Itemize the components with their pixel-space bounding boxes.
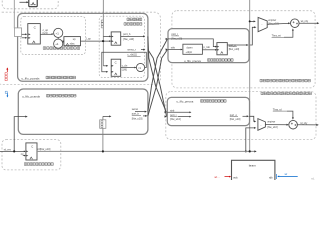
blue annotation right of bram (278, 175, 298, 177)
wire O2 to up/rdec block U1 (63, 42, 64, 43)
wire port_b out of B1 to subsystem edge (121, 35, 145, 37)
counter block C2 (111, 59, 121, 76)
rotated goto tag + riser x=102.9 (102, 116, 104, 151)
svg-text:wrptrwr: wrptrwr (267, 120, 275, 123)
link O1-O2 (57, 38, 59, 40)
register block B1 (111, 32, 121, 45)
gray feed wire at x=14.3 from top (13, 0, 15, 28)
svg-text:[Nw_u10]: [Nw_u10] (229, 48, 240, 51)
svg-text:c_dn: c_dn (122, 65, 128, 68)
svg-text:[Nw_u10]: [Nw_u10] (268, 23, 278, 26)
svg-text:+rdptr: +rdptr (186, 51, 193, 54)
mux trapezoid T1 (258, 17, 267, 31)
svg-text:[Nw_u10]: [Nw_u10] (132, 117, 143, 120)
wire into top-left block (20, 1, 29, 3)
svg-text:[Nw_u10]: [Nw_u10] (267, 126, 277, 129)
svg-text:u_fifo_precva: u_fifo_precva (184, 59, 201, 63)
annotation box D5 (rd address counter) (2, 140, 61, 170)
svg-text:port_b: port_b (123, 33, 131, 36)
crossing bundle A wire 1 (port_b upper to lower-right) (148, 36, 166, 112)
top-left icon block (29, 0, 37, 7)
svg-text:[Nw_u10]: [Nw_u10] (230, 118, 241, 121)
svg-text:rd..: rd.. (311, 178, 315, 180)
long vertical wire x=249.7 (rd address to wr-side mux) (249, 0, 251, 151)
subsystem u_fifo_pcands (upper) (18, 13, 148, 81)
svg-text:strb: strb (171, 46, 176, 49)
svg-text:[1/8]: [1/8] (122, 69, 127, 72)
svg-text:p_rdo: p_rdo (203, 46, 210, 49)
subsystem u_fifo_pcands (lower) (18, 89, 148, 134)
label: wr-side address diff annotation (260, 79, 310, 82)
label: rd-side address diff annotation (261, 92, 311, 95)
crossing bundle B wire 1 (lower port to precva upper port_i) (148, 39, 168, 112)
label of area A (43, 47, 79, 50)
svg-text:rd[Nw_u10]: rd[Nw_u10] (38, 148, 51, 151)
svg-text:serno: serno (132, 108, 139, 111)
mux trapezoid T2 (258, 119, 266, 131)
bram block (232, 160, 275, 182)
svg-text:C: C (115, 61, 117, 65)
red annotation left margin (6, 68, 8, 72)
svg-text:serno_r: serno_r (127, 48, 136, 51)
svg-text:rd_rdy: rd_rdy (300, 122, 308, 125)
svg-text:rdec: rdec (70, 43, 76, 46)
svg-text:[Nw_u10]: [Nw_u10] (170, 118, 181, 121)
svg-text:f_up: f_up (85, 38, 91, 41)
svg-text:+1: +1 (55, 42, 59, 46)
svg-text:u_fifo_precva: u_fifo_precva (177, 100, 194, 104)
svg-text:strb: strb (170, 109, 175, 112)
label of area B (2 lines) (127, 18, 142, 21)
input wire into lower subsystem (14, 117, 26, 152)
svg-text:wt_rdy: wt_rdy (301, 20, 309, 23)
rd_rdy output wire (297, 124, 317, 126)
svg-text:wr: wr (285, 173, 288, 176)
port_o wire out to mux T1 (227, 44, 247, 46)
svg-text:C: C (31, 145, 33, 149)
T1 output wire + labels (267, 22, 289, 25)
svg-text:u_fifo_pcands: u_fifo_pcands (22, 95, 41, 99)
svg-text:rd_res: rd_res (4, 149, 12, 152)
rd address counter block C3 (26, 143, 37, 160)
annotation box D3 (wr-side address diff calc) (172, 11, 315, 88)
svg-text:<1: <1 (56, 31, 60, 35)
svg-text:u_fifo_pcands: u_fifo_pcands (22, 76, 41, 80)
svg-text:c_r(b)[1]: c_r(b)[1] (127, 54, 137, 57)
crossing bundle A wire 2 (serno upper to lower-right) (148, 50, 167, 117)
crossing bundle B wire 2 (lower port to precva upper strb) (148, 50, 168, 116)
svg-text:bram: bram (249, 163, 256, 167)
comparator circle O2 (54, 39, 63, 48)
vertical feed wire x=103.3 with rotated tag (102, 0, 104, 66)
comparator circle O1 (54, 28, 63, 37)
svg-text:-: - (261, 124, 262, 127)
svg-text:wr…: wr… (215, 176, 221, 179)
svg-text:down: down (187, 46, 194, 49)
riser from long line into mux T2 (246, 128, 255, 152)
inner dashed area B: wr address return period gen (99, 16, 144, 77)
wt_rdy output wire (299, 22, 318, 24)
register block P2 (217, 43, 227, 55)
sum circle S1 (291, 19, 300, 28)
sum circle S2 (289, 120, 298, 129)
up/rdec block U1 (64, 37, 81, 46)
inner dashed area A: wr address change period control (21, 16, 86, 54)
counter block C1 (28, 24, 41, 44)
rd_res input wire (0, 150, 25, 152)
comparator circle O3 (136, 63, 144, 71)
long horizontal wire y=151.4 (37, 150, 256, 152)
svg-text:[Nw_u10]: [Nw_u10] (123, 38, 134, 41)
svg-text:-: - (262, 24, 263, 27)
From tag box feeding counter C1 (14, 28, 21, 37)
subsystem u_fifo_precva (lower) (167, 97, 249, 125)
T2 output wire + labels (265, 124, 287, 126)
svg-text:rdb: rdb (269, 176, 273, 179)
wire C1 to comparator circle O1, label c_up [1/4] (40, 33, 52, 35)
annotation box D1 (top-left, cut off) (2, 0, 58, 9)
down +rdptr block (183, 44, 203, 54)
svg-text:wck: wck (233, 176, 238, 179)
blue annotation left margin (6, 93, 8, 97)
subsystem u_fifo_precva (upper) (168, 29, 249, 63)
annotation box D2 (around u_fifo_pcands upper) (0, 12, 161, 84)
svg-text:[1/4]: [1/4] (43, 32, 48, 35)
wire f_up : U1 to register B1 (81, 40, 111, 42)
wire C2 to comparator O3, labels c_dn [1/8] (121, 67, 136, 69)
caption rd-side address counter (24, 163, 53, 166)
feedback wire from O3 to counter C2 (102, 52, 147, 72)
port_i wire to register P2 (168, 39, 216, 47)
annotation box D4 (rd-side address diff calc) (166, 92, 316, 140)
